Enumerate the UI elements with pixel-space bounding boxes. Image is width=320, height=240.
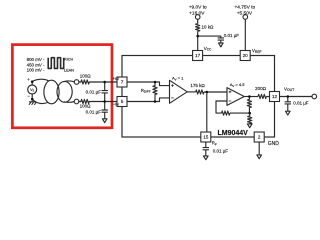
wire VCC node to bypass cap [198,36,221,38]
wire twisted pair top-left entry [32,79,48,81]
svg-text:−IN: −IN [113,102,119,107]
IC boundary LM9044V [122,56,275,138]
svg-text:RF: RF [212,141,217,147]
svg-text:2: 2 [258,135,261,140]
svg-text:VS: VS [30,88,34,93]
capacitor 0.01uF VCC plates [218,38,224,40]
terminal input bottom [74,99,79,104]
node RDIFF top junction [154,81,157,84]
wire cap to ground arrow [104,112,106,119]
svg-text:7: 7 [121,80,124,85]
wire U1 output to 175k resistor [187,91,195,93]
pin 20 box [240,51,250,61]
capacitor 0.01uF output plates [285,102,291,104]
resistor divider upper vertical [247,97,251,114]
svg-text:+4.75V to: +4.75V to [234,4,255,10]
svg-text:RICH: RICH [64,57,74,61]
op-amp U1 minus sign [171,97,174,99]
svg-text:0.01 µF: 0.01 µF [86,110,102,115]
ground arrow under pin 2 [257,155,262,159]
capacitor 0.01uF minus-input plates [102,110,108,112]
svg-text:+IN: +IN [113,76,119,81]
node VCC junction [196,35,199,38]
svg-text:LEAN: LEAN [64,68,74,72]
svg-text:100 mV -: 100 mV - [27,67,45,72]
wire 175k to opamp U2 +in [204,91,227,93]
terminal input top [74,80,79,85]
wire 200 ohm to pin 12 [266,96,269,98]
node RF junction [206,91,209,94]
wire pin 12 to output terminal [280,96,313,98]
capacitor 0.01uF output lead [287,97,289,102]
wire VS bottom lead [31,94,33,99]
pin 17 box [193,51,203,61]
wire twisted pair top-right exit [64,80,75,83]
svg-text:AV = 1: AV = 1 [172,76,184,82]
svg-text:VREF: VREF [252,48,261,54]
resistor 10k vertical [196,24,200,32]
svg-text:AV = 4.5: AV = 4.5 [230,82,246,88]
wire feedback resistor to divider tap [230,112,250,114]
resistor 100 ohm bottom [79,99,91,103]
capacitor 0.01uF differential plates [102,91,108,93]
node U2 output junction [248,95,251,98]
capacitor 0.01uF differential top lead [104,82,106,91]
svg-text:15: 15 [203,135,209,140]
wire RF cap to ground [205,150,207,156]
wire U2 -in feedback left jog [216,101,227,113]
node VS minus junction [31,98,34,101]
terminal supply 9V [195,15,200,20]
wire VS top lead [31,82,33,85]
op-amp U2 plus sign [229,91,232,94]
pin 2 box [254,132,264,142]
pin 15 box [201,132,211,142]
ground arrow under input cap [102,119,107,123]
svg-text:100Ω: 100Ω [80,74,92,79]
resistor 100 ohm top [79,80,91,84]
node bottom line cap junction [103,100,106,103]
wire VCC cap to ground [220,40,222,43]
ground earth symbol under VS [29,99,37,105]
resistor divider lower vertical [248,113,252,124]
terminal output VOUT [312,94,317,99]
red annotation highlight box around sensor input network [12,45,112,128]
svg-text:−: − [27,93,30,98]
svg-text:5: 5 [121,99,124,104]
svg-text:VCC: VCC [204,46,212,52]
capacitor 0.01uF differential bottom lead [104,93,106,102]
wire pin5 to RDIFF and opamp U1 -in with jog [127,98,170,102]
svg-text:LM9044V: LM9044V [218,130,249,137]
wire pin 15 to RF cap [205,142,207,148]
node RDIFF bottom junction [154,100,157,103]
node divider tap junction [248,112,251,115]
wire U2 output to 200 ohm resistor [244,96,258,98]
svg-text:+16.0V: +16.0V [189,11,205,17]
twisted pair loop left [44,80,59,104]
wire reference terminal to pin 20 [244,19,246,50]
wire output cap to ground [287,104,289,111]
sensor source VS circle [28,85,37,94]
svg-text:+9.0V to: +9.0V to [189,4,207,10]
svg-text:+5.50V: +5.50V [237,11,253,17]
svg-text:0.01 µF: 0.01 µF [224,33,240,38]
resistor 175k [196,90,204,94]
pin 7 box [117,77,127,87]
svg-text:20: 20 [243,53,249,58]
svg-text:0.01 µF: 0.01 µF [293,101,309,106]
wire twisted pair bottom-right exit [64,101,74,104]
op-amp U1 plus sign [171,84,174,87]
wire supply terminal to 10k [197,19,199,23]
wire RF node down to pin 15 [206,92,208,132]
svg-text:+: + [27,77,30,82]
node top line cap junction [103,81,106,84]
resistor 200 ohm [258,94,266,98]
svg-text:175 kΩ: 175 kΩ [190,83,205,88]
svg-text:100Ω: 100Ω [80,104,92,109]
svg-text:200Ω: 200Ω [255,86,267,91]
wire top line to pin 7 [91,81,117,83]
capacitor 0.01uF minus-input lead [104,102,106,111]
node VS plus junction [31,80,34,83]
svg-text:0.01 µF: 0.01 µF [213,149,229,154]
svg-text:RDIFF: RDIFF [141,88,151,94]
wire pin 2 to ground [258,142,260,155]
pin 5 box [117,97,127,107]
twisted pair loop right [57,81,72,102]
capacitor 0.01uF RF plates [203,148,209,150]
op-amp U1 triangle Av=1 [170,80,188,103]
wire bottom line to pin 5 [91,101,117,103]
pin 12 box [270,92,280,102]
ground arrow under output cap [286,111,291,115]
ground arrow under RF cap [204,156,209,160]
terminal reference 5V [243,15,248,20]
wire pin7 to RDIFF and opamp U1 +in with jog [127,82,170,86]
op-amp U2 minus sign [229,100,232,102]
svg-text:10 kΩ: 10 kΩ [202,25,215,30]
node VOUT junction [287,95,290,98]
wire 10k to pin 17 [197,31,199,50]
ground arrow under divider [247,124,252,128]
waveform legend square-wave glyph [48,58,63,69]
resistor feedback horizontal [222,111,230,115]
resistor RDIFF vertical [153,82,157,102]
svg-text:12: 12 [272,94,278,99]
svg-text:17: 17 [195,53,201,58]
svg-text:VOUT: VOUT [284,86,294,92]
ground arrow under VCC cap [219,43,224,47]
wire twisted pair bottom-left entry [32,99,48,104]
svg-text:GND: GND [268,141,280,147]
op-amp U2 triangle Av=4.5 [227,88,244,106]
svg-text:0.01 µF: 0.01 µF [86,89,102,94]
